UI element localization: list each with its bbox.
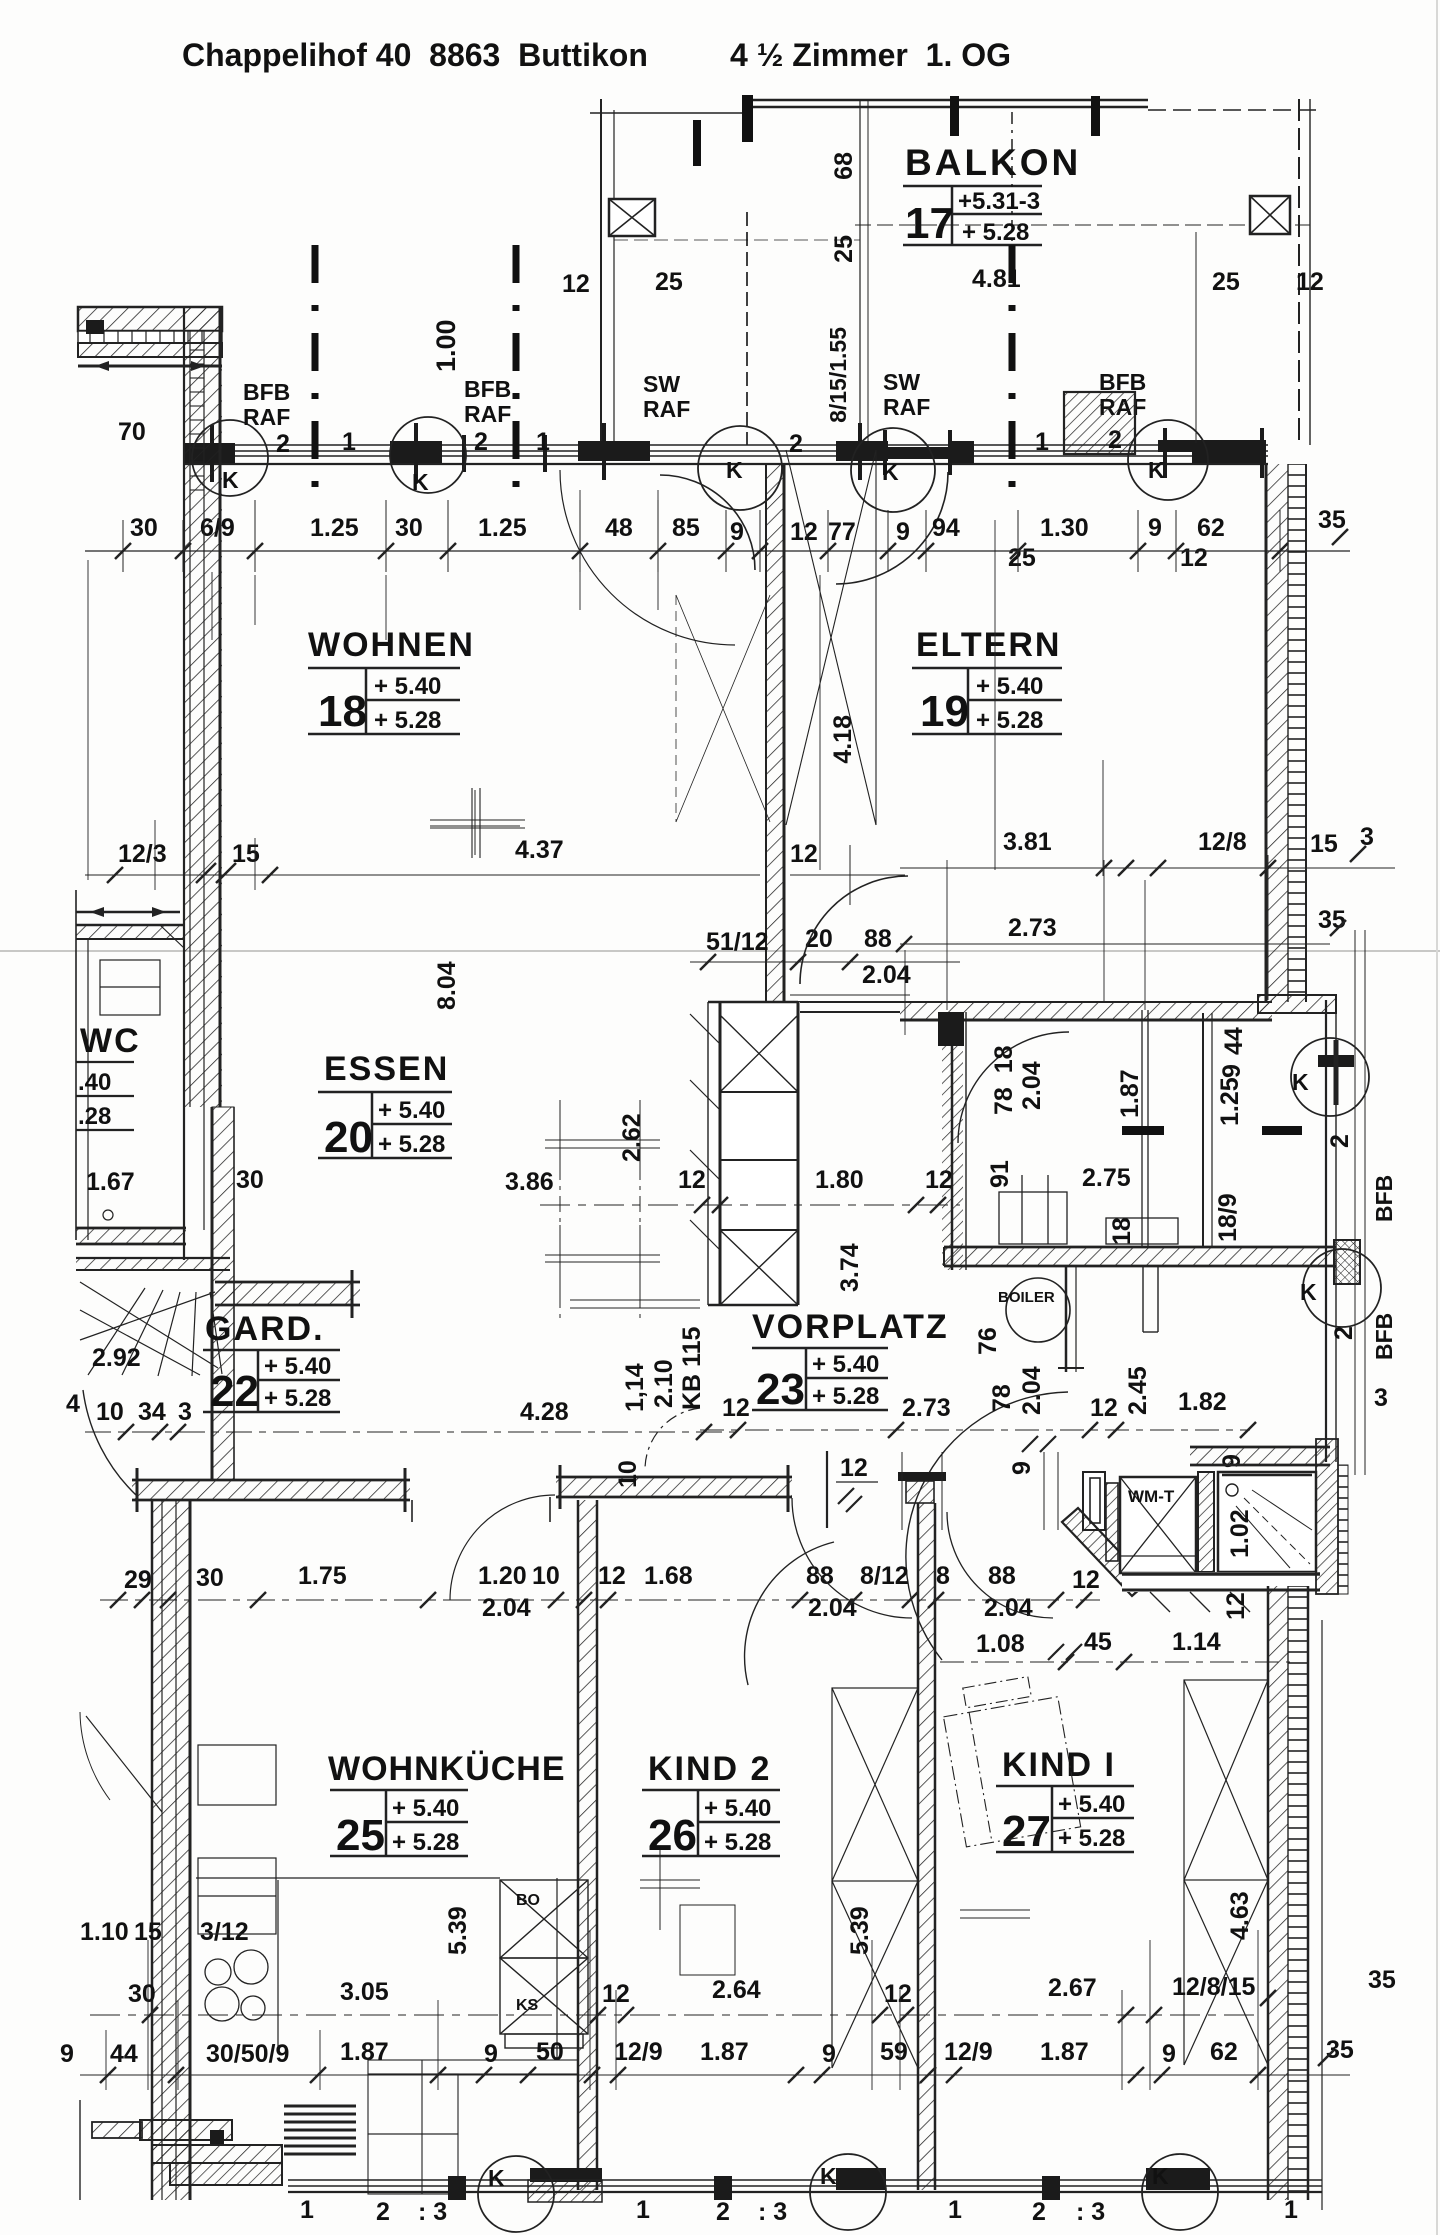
svg-text:1.02: 1.02 [1226,1509,1254,1558]
svg-text:+ 5.28: + 5.28 [264,1385,331,1412]
dim line gard row [85,1431,740,1433]
svg-text:1.68: 1.68 [644,1562,693,1590]
svg-text:2: 2 [376,2198,390,2226]
svg-text:10: 10 [532,1562,560,1590]
svg-text:WM-T: WM-T [1128,1487,1175,1506]
bath door arc [906,1392,1068,1660]
kind1 table 27 [996,1786,1134,1852]
bath level right wall [1316,1439,1348,1594]
shower square [1218,1472,1316,1572]
svg-text:2: 2 [1326,1134,1354,1148]
svg-text:10: 10 [96,1398,124,1426]
svg-text:8: 8 [936,1562,950,1590]
K circle 4 [851,428,935,512]
svg-text:K: K [1292,1069,1309,1095]
svg-text:3.86: 3.86 [505,1168,554,1196]
svg-text:1.80: 1.80 [815,1166,864,1194]
svg-text:K: K [1300,1279,1317,1305]
K circle right 1 [1291,1038,1369,1116]
wall wohnkueche/kind2 [578,1500,597,2190]
gard table 22 [203,1350,340,1412]
svg-text:2.04: 2.04 [1018,1061,1046,1110]
svg-text:27: 27 [1002,1807,1051,1856]
svg-text:VORPLATZ: VORPLATZ [752,1308,949,1346]
svg-text:1.87: 1.87 [1040,2038,1089,2066]
bottom jamb blocks [448,2168,1210,2200]
svg-text:12: 12 [1222,1592,1250,1620]
svg-text:9: 9 [60,2040,74,2068]
wc upper wall [76,890,184,1240]
svg-text:Chappelihof 40 8863 Buttikon: Chappelihof 40 8863 Buttikon [182,37,648,73]
svg-text:78 18: 78 18 [990,1045,1018,1115]
svg-text:3.81: 3.81 [1003,828,1052,856]
top dim ticks [115,529,1348,559]
svg-text:62: 62 [1197,514,1225,542]
K circle 2 [390,417,466,493]
svg-text:2.04: 2.04 [862,961,911,989]
K circle bottom 2 [810,2154,886,2230]
svg-text:17: 17 [905,199,954,248]
shaft cross right of wall [786,450,876,825]
svg-text:9: 9 [896,518,910,546]
svg-text:70: 70 [118,418,146,446]
svg-text:+5.31-3: +5.31-3 [958,188,1040,215]
svg-text:2.73: 2.73 [1008,914,1057,942]
kind wall T cap [898,1472,946,1481]
K circle bottom 1 [478,2156,554,2232]
svg-text:K: K [488,2165,505,2191]
svg-text:+ 5.40: + 5.40 [378,1097,445,1124]
svg-text:2.10: 2.10 [650,1359,678,1408]
svg-text:44: 44 [110,2040,138,2068]
reduit jamb cap [938,1012,964,1046]
wohnen furniture cross [430,788,525,858]
svg-text:77: 77 [828,518,856,546]
extension verticals top row [123,500,1280,572]
svg-text:1.00: 1.00 [431,319,461,372]
svg-text:2.62: 2.62 [618,1113,646,1162]
crosshatch box right [1334,1240,1360,1284]
svg-text:1: 1 [948,2196,962,2224]
bath bottom wall [1122,1572,1320,1612]
corridor door jamb bar [827,1451,878,1528]
reduit door arc [958,1032,1069,1143]
eltern extension lines [905,855,1268,1035]
kind rooms furniture lines [640,1850,1030,1975]
svg-text:3/12: 3/12 [200,1918,249,1946]
svg-text:+ 5.40: + 5.40 [704,1795,771,1822]
axis dash line C [1009,245,1016,495]
svg-text:88: 88 [864,925,892,953]
radiator stripes [284,2106,356,2154]
svg-text:23: 23 [756,1365,805,1414]
svg-text:9: 9 [730,518,744,546]
svg-text:18: 18 [318,687,367,736]
svg-text:12: 12 [884,1980,912,2008]
svg-text:1: 1 [342,428,356,456]
kitchen counter line [196,1878,557,2058]
svg-text:K: K [882,459,899,485]
svg-text:K: K [412,469,429,495]
kitchen counter rects [198,1745,276,1934]
svg-text:9: 9 [1148,514,1162,542]
svg-text:WOHNKÜCHE: WOHNKÜCHE [328,1750,566,1788]
svg-text:12: 12 [840,1454,868,1482]
svg-text:29: 29 [124,1566,152,1594]
door arc eltern balcony [836,472,948,584]
svg-text:48: 48 [605,514,633,542]
svg-text:1.82: 1.82 [1178,1388,1227,1416]
vorplatz table 23 [752,1348,888,1410]
svg-text:1: 1 [636,2196,650,2224]
boiler niche side lines [1143,1266,1158,1332]
gard wall above [215,1270,360,1318]
svg-text:2: 2 [474,428,488,456]
svg-text:GARD.: GARD. [205,1310,325,1348]
svg-text:3: 3 [1374,1384,1388,1412]
svg-text:2.73: 2.73 [902,1394,951,1422]
svg-text:4.18: 4.18 [829,715,857,764]
tilted furniture kind1 [939,1672,1081,1847]
svg-text:: 3: : 3 [418,2198,447,2226]
svg-text:18: 18 [1108,1217,1136,1245]
svg-text:35: 35 [1318,906,1346,934]
svg-text:2: 2 [789,430,803,458]
dim line wohnen row [85,874,760,876]
svg-text:1.87: 1.87 [1116,1069,1144,1118]
svg-text:2: 2 [716,2198,730,2226]
svg-text:3.05: 3.05 [340,1978,389,2006]
balcony inner vertical [1195,232,1197,443]
entry small arc [80,1712,110,1800]
door arc vorplatz down [720,1542,863,1685]
middle wall right segment [556,1465,792,1512]
wohnkueche furniture [368,2060,578,2194]
svg-text:12/9: 12/9 [614,2038,663,2066]
svg-text:12: 12 [1296,268,1324,296]
svg-text:+ 5.28: + 5.28 [1058,1825,1125,1852]
K circle 1 [192,420,268,496]
svg-text:+ 5.28: + 5.28 [704,1829,771,1856]
svg-text:12: 12 [1072,1566,1100,1594]
corridor door arc left [792,1498,912,1618]
svg-text:35: 35 [1318,506,1346,534]
svg-text:12/8: 12/8 [1198,828,1247,856]
svg-text:9: 9 [822,2040,836,2068]
top exterior window wall [183,445,1268,464]
bottom left corner walls [140,2120,282,2185]
svg-text:4.28: 4.28 [520,1398,569,1426]
svg-text:12: 12 [790,840,818,868]
door arc gard [450,1495,555,1600]
svg-text:30: 30 [236,1166,264,1194]
essen dim line [540,1204,960,1206]
svg-text:1: 1 [1284,2196,1298,2224]
essen table 20 [318,1092,452,1158]
svg-text:30: 30 [128,1980,156,2008]
svg-text:.40: .40 [78,1069,111,1096]
wc fixtures [100,960,160,1220]
reduit axis dash [1122,1126,1164,1135]
axis C upper thin [1011,112,1013,245]
reduit shelf rects [999,1010,1178,1247]
svg-text:10: 10 [614,1460,642,1488]
svg-text:WC: WC [80,1022,141,1060]
svg-text:1: 1 [300,2196,314,2224]
svg-text:12: 12 [722,1394,750,1422]
wc bottom wall [76,1228,230,1270]
right wall lower thin [1326,930,1365,1475]
svg-text:45: 45 [1084,1628,1112,1656]
svg-text:+ 5.28: + 5.28 [374,707,441,734]
svg-text:+ 5.40: + 5.40 [264,1353,331,1380]
svg-text:94: 94 [932,514,960,542]
svg-text:1.87: 1.87 [700,2038,749,2066]
svg-text:+ 5.40: + 5.40 [392,1795,459,1822]
svg-text:51/12: 51/12 [706,928,769,956]
svg-text:ESSEN: ESSEN [324,1050,449,1088]
svg-text:BALKON: BALKON [905,142,1081,183]
svg-text:KIND I: KIND I [1002,1746,1116,1784]
axis dash line A [312,245,319,490]
svg-text:1.14: 1.14 [1172,1628,1221,1656]
K circle 5 [1128,420,1208,500]
bottom hatched block [528,2180,602,2202]
svg-text:K: K [1148,457,1165,483]
svg-text:12: 12 [678,1166,706,1194]
svg-text:RAF: RAF [243,404,290,430]
svg-text:88: 88 [988,1562,1016,1590]
svg-text:2.64: 2.64 [712,1976,761,2004]
right exterior wall upper [1266,464,1306,1002]
svg-text:3: 3 [1360,823,1374,851]
entry door arc [83,1390,137,1496]
left wall lower segment [184,1107,234,1480]
svg-text:+ 5.40: + 5.40 [374,673,441,700]
corridor door arc right [947,1512,1053,1618]
svg-text:1: 1 [536,428,550,456]
svg-text:4.63: 4.63 [1226,1891,1254,1940]
eltern table 19 [912,668,1062,734]
svg-text:76: 76 [974,1327,1002,1355]
svg-text:30: 30 [130,514,158,542]
svg-text:9: 9 [484,2040,498,2068]
svg-text:RAF: RAF [464,401,511,427]
svg-text:+ 5.28: + 5.28 [378,1131,445,1158]
entry hatch fan [80,1282,222,1376]
bo ks boxes [500,1880,588,2048]
balcony axis thick dashes [693,95,1100,445]
wall kind2/kind1 [918,1503,935,2190]
svg-text:2.92: 2.92 [92,1344,141,1372]
svg-text:8.04: 8.04 [433,961,461,1010]
svg-text:1.67: 1.67 [86,1168,135,1196]
svg-text:15: 15 [1310,830,1338,858]
wm-t left wall [1083,1472,1118,1561]
reduit left wall [952,1012,966,1270]
svg-text:3.74: 3.74 [836,1243,864,1292]
bottom dim rows [60,1891,1396,2068]
svg-text:1.10: 1.10 [80,1918,129,1946]
svg-text:BFB: BFB [243,379,290,405]
svg-text:1.25: 1.25 [478,514,527,542]
svg-text:2.04: 2.04 [808,1594,857,1622]
svg-text:K: K [820,2163,837,2189]
svg-text:K: K [726,457,743,483]
boiler wall stub [1058,1266,1084,1372]
svg-text:20: 20 [324,1113,373,1162]
left wall bottom [152,1500,190,2200]
svg-text:1.87: 1.87 [340,2038,389,2066]
svg-text:2.45: 2.45 [1124,1366,1152,1415]
svg-text:BFB: BFB [464,376,511,402]
balcony outline [590,99,1320,445]
svg-text:BOILER: BOILER [998,1289,1055,1306]
svg-text:9: 9 [1162,2040,1176,2068]
left exterior wall [184,307,222,1107]
eltern dim lines [690,944,1330,995]
svg-text:18/9: 18/9 [1214,1193,1242,1242]
svg-text:12: 12 [1090,1394,1118,1422]
right wall bottom (kind1) [1268,1586,1322,2210]
svg-text:KIND 2: KIND 2 [648,1750,771,1788]
svg-text:50: 50 [536,2038,564,2066]
svg-text:+ 5.40: + 5.40 [812,1351,879,1378]
balcony pillar right [1250,196,1290,234]
top-left corner wall horizontal [78,307,222,371]
svg-text:2: 2 [1330,1326,1358,1340]
closet X kind1 [1184,1680,1268,2065]
wohnen table 18 [308,668,460,734]
svg-text:85: 85 [672,514,700,542]
K circle right 2 [1303,1249,1381,1327]
svg-text:: 3: : 3 [758,2198,787,2226]
K circle 3 [698,426,782,510]
essen furniture marks [545,1105,700,1308]
top dim row [130,506,1346,546]
svg-text:35: 35 [1368,1966,1396,1994]
wohnen window extension lines [255,490,1103,876]
svg-text:8/15/1.55: 8/15/1.55 [825,327,851,423]
diagonal wall bath [1062,1508,1148,1596]
scan artifact line [0,950,1440,952]
svg-text:+ 5.40: + 5.40 [976,673,1043,700]
svg-text:1.20: 1.20 [478,1562,527,1590]
svg-text:30: 30 [395,514,423,542]
svg-text:3: 3 [178,1398,192,1426]
svg-text:19: 19 [920,687,969,736]
bottom dim lines [90,2014,1260,2016]
left dim extension col [88,560,255,890]
svg-text:22: 22 [210,1367,259,1416]
window jamb blocks top wall [183,440,1266,463]
bottom wall band [288,2180,1322,2192]
left protrusion walls mid [80,2100,142,2200]
big arc top center [660,475,755,570]
svg-text:12: 12 [598,1562,626,1590]
svg-text:25: 25 [655,268,683,296]
kb arc [645,1408,700,1470]
svg-text:35: 35 [1326,2036,1354,2064]
svg-text:12: 12 [562,270,590,298]
dim line eltern row [900,867,1395,869]
svg-text:2.04: 2.04 [1018,1366,1046,1415]
jamb cross marks [212,423,1262,482]
svg-text:12/9: 12/9 [944,2038,993,2066]
middle wall left segment [132,1468,410,1512]
svg-text:12: 12 [1180,544,1208,572]
svg-text:62: 62 [1210,2038,1238,2066]
K circle bottom 3 [1142,2154,1218,2230]
svg-text:2.67: 2.67 [1048,1974,1097,2002]
bath top wall [1190,1447,1330,1465]
door frame stubs middle wall [412,1497,550,1522]
svg-text:1.08: 1.08 [976,1630,1025,1658]
svg-text:25: 25 [336,1811,385,1860]
svg-text:1.25: 1.25 [310,514,359,542]
svg-text:SW: SW [883,369,920,395]
reduit bottom wall [944,1247,1336,1266]
chimney block [690,1002,800,1305]
svg-text:K: K [1152,2163,1169,2189]
svg-text:BO: BO [516,1892,540,1909]
wm-t box [1120,1477,1196,1573]
reduit left wall hatch [942,1012,963,1270]
svg-text:+ 5.28: + 5.28 [392,1829,459,1856]
boiler circle [1006,1278,1070,1342]
svg-text:68: 68 [830,152,858,180]
svg-text:KB 115: KB 115 [678,1327,706,1410]
svg-text:34: 34 [138,1398,166,1426]
closet X kind2 [832,1688,918,2068]
wohnkueche table 25 [330,1790,468,1856]
svg-text:: 3: : 3 [1076,2198,1105,2226]
balcony pillar at wall [1064,392,1135,454]
wohnen grid marks [430,790,905,905]
kind2 table 26 [642,1790,780,1856]
svg-text:12/3: 12/3 [118,840,167,868]
dim 9 pair [1022,1436,1082,1660]
svg-text:5.39: 5.39 [444,1906,472,1955]
svg-text:4: 4 [66,1390,80,1418]
svg-text:RAF: RAF [883,394,930,420]
right wall jog [1258,995,1336,1013]
svg-text:2: 2 [1032,2198,1046,2226]
central wall wohnen/eltern [766,464,784,1012]
svg-text:25: 25 [830,235,858,263]
svg-text:30: 30 [196,1564,224,1592]
bottom room extension lines [106,1930,1258,2090]
svg-text:9: 9 [1008,1461,1036,1475]
axis dash line B [513,245,520,490]
svg-text:.28: .28 [78,1103,111,1130]
svg-text:KS: KS [516,1997,539,2014]
mid dim row 29 etc [124,1562,1100,1594]
svg-text:WOHNEN: WOHNEN [308,626,475,664]
stove circles [205,1950,268,2021]
svg-text:1.75: 1.75 [298,1562,347,1590]
svg-text:30/50/9: 30/50/9 [206,2040,289,2068]
entry diagonal door leaf [86,1716,162,1812]
svg-text:2.04: 2.04 [482,1594,531,1622]
svg-text:2.75: 2.75 [1082,1164,1131,1192]
vorplatz dim row lines [700,1429,1250,1431]
svg-text:2: 2 [276,430,290,458]
svg-text:25: 25 [1212,268,1240,296]
svg-text:59: 59 [880,2038,908,2066]
shaft cross wohnen side [676,595,770,822]
balcony pillar left [609,199,655,236]
